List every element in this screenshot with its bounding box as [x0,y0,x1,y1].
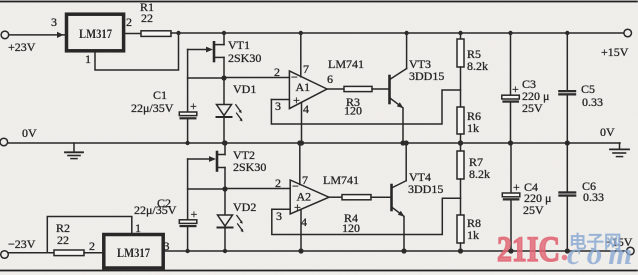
node C5 top junction [565,31,569,35]
resistor R5 [457,33,488,107]
terminal -23V [1,251,9,259]
node VT3 collector junction [404,31,408,35]
wire node A to A1 pin2 [224,77,289,79]
node A1 pin7 junction [299,31,303,35]
node C3 bottom junction [508,140,513,145]
wire A2 output pin6 [329,196,342,198]
wire -23V input [9,252,55,254]
resistor R8 [457,215,481,251]
node VT2 drain junction [222,140,227,145]
resistor R1 [141,31,171,37]
resistor R3 [344,86,372,91]
node A2 pin7 junction [297,140,302,145]
node VT1 drain junction [222,31,226,35]
wire A1 output pin6 [327,88,344,90]
capacitor C3 [502,33,550,143]
wire node B to A2 pin2 [225,188,290,190]
wire -15V rail [163,250,626,252]
wire R4 to VT4 base [371,196,391,198]
wire U1 output to R1 [124,33,141,35]
diode VD2 LED [218,189,257,251]
wire R3 to VT3 base [372,88,389,90]
capacitor C6 [558,143,604,251]
diode VD1 LED [217,78,257,143]
transistor VT2 2SK30 [188,143,267,189]
transistor VT3 3DD15 [390,33,445,143]
resistor R4 [342,195,371,200]
top dotted border [0,1,638,3]
node A1 pin4 junction [299,140,304,145]
node R6 bottom junction [458,140,463,145]
node R8 bottom junction [458,248,463,253]
capacitor C5 [558,33,603,143]
wire +23V input [9,34,67,36]
node reference B (VT2 source) [222,186,227,191]
op-amp A1 LM741 [274,57,364,116]
node VT3 emitter junction [400,140,405,145]
node C6 bottom junction [565,248,570,253]
capacitor C2 [134,196,198,251]
terminal +15V [624,29,632,37]
ground right [610,143,629,157]
wire pin1 loop U1 [95,33,179,70]
node VD2 rail junction [223,249,227,253]
wire node A to gate column [188,77,224,79]
node C1 ground junction [185,141,189,145]
wire node B to gate column [188,188,225,190]
transistor VT4 3DD15 [392,143,444,251]
capacitor C4 [502,143,551,251]
wire A2 pin3 input [272,208,290,210]
wire top rail +15V [171,32,624,34]
wire A1 pin4 to 0V [301,102,303,143]
wire A1 pin3 input [271,99,289,101]
node R7 top junction [458,140,463,145]
terminal +23V [1,31,9,39]
node C3 top junction [508,31,512,35]
node A2 pin4 junction [298,248,303,253]
node VT4 collector junction [404,140,409,145]
node C2 rail junction [185,249,189,253]
bottom dotted border [0,270,638,272]
regulator U1 LM317 [67,14,124,51]
node C4 bottom junction [508,248,513,253]
terminal -15V [627,247,635,255]
ground left [65,143,83,159]
wire A1 pin7 to rail [300,33,302,77]
transistor VT1 2SK30 [188,33,262,78]
wire 0V rail [8,142,621,144]
wire gate column lower [187,159,189,220]
terminal 0V [0,138,8,146]
wire gate column [187,50,189,113]
capacitor C1 [131,88,197,143]
wire A2 pin4 to -15V [300,210,302,252]
resistor R2 [54,250,84,256]
resistor R7 [457,143,490,215]
op-amp A2 LM741 [275,173,359,229]
wire A2 pin3 feedback loop [272,198,461,234]
wire A1 pin3 feedback loop [271,90,460,124]
resistor R6 [457,107,481,143]
node reference A (VT1 source) [221,75,226,80]
wire A2 pin7 to 0V [299,143,301,185]
wire arrow into pin 3 [57,32,64,38]
wire pin1 loop U2 [47,217,132,253]
regulator U2 LM317 [104,235,163,269]
wire R2 to U2 [84,252,104,254]
node junction rail/adj [176,31,180,35]
node VT4 emitter junction [401,248,406,253]
node R5 top junction [458,31,462,35]
node C5 bottom junction [565,140,570,145]
node VD1 ground junction [222,141,226,145]
